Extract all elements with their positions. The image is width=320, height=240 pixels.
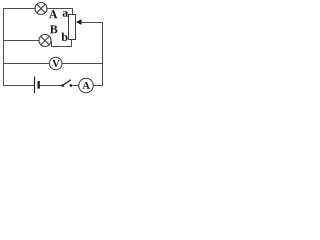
battery long plate [34,77,36,94]
wire voltmeter to right vertical [62,63,102,65]
wire right vertical [102,22,104,86]
battery short thick plate [38,81,40,89]
voltmeter V [49,57,62,70]
label B [50,25,57,33]
lamp B (circle with X) [39,35,51,47]
wire battery to switch [40,85,62,87]
wire bottom left to battery [3,85,34,87]
wire left to voltmeter [3,63,50,65]
wire switch to ammeter [72,85,79,87]
label A [49,10,57,18]
switch blade [63,80,71,86]
wire slider to right vertical [81,22,103,24]
wire top from left corner to lamp A [3,8,35,10]
label b [61,33,67,41]
ammeter A [79,78,94,93]
rheostat slider arrow [76,19,82,25]
wire left to lamp B [3,40,39,42]
wire lamp B to rheostat bottom terminal [52,40,72,47]
switch hinge dot [61,84,64,87]
wire left vertical [3,8,5,86]
label a [63,11,68,17]
switch contact dot [70,84,73,87]
wire lamp A to rheostat top terminal [47,9,73,15]
lamp A (circle with X) [35,3,47,15]
rheostat body [69,15,76,40]
wire ammeter to bottom right corner [93,85,103,87]
